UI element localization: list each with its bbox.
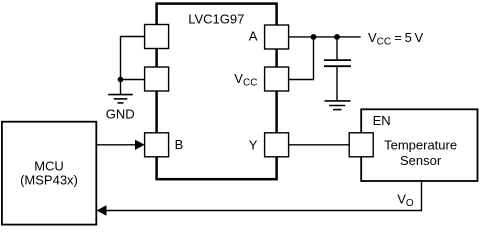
- pin box L2: [145, 67, 169, 91]
- svg-text:GND: GND: [106, 106, 135, 121]
- label Temperature Sensor: [384, 138, 457, 168]
- arrowhead into MCU: [97, 205, 107, 216]
- svg-text:VO: VO: [397, 191, 414, 209]
- junction dot supply 1: [311, 34, 317, 40]
- svg-text:(MSP43x): (MSP43x): [20, 173, 78, 188]
- wire pin A to VCC supply: [289, 36, 361, 38]
- svg-text:Temperature: Temperature: [384, 138, 457, 153]
- MCU box: [2, 122, 96, 225]
- ground GND symbol: [108, 95, 133, 103]
- wire capacitor to ground: [336, 67, 338, 101]
- wire sensor output VO: [106, 181, 422, 211]
- svg-text:A: A: [249, 29, 258, 44]
- junction dot left: [118, 77, 124, 83]
- wire VCC pin to supply rail: [289, 37, 314, 80]
- svg-text:Sensor: Sensor: [400, 153, 442, 168]
- svg-text:B: B: [175, 137, 184, 152]
- svg-text:VCC = 5 V: VCC = 5 V: [368, 30, 424, 48]
- svg-text:LVC1G97: LVC1G97: [188, 12, 244, 27]
- Temperature Sensor box: [361, 109, 477, 181]
- pin box L1: [145, 25, 169, 49]
- pin box B: [145, 133, 169, 157]
- pin box Y: [265, 133, 289, 157]
- wire pin Y to EN: [289, 144, 350, 146]
- pin box EN: [349, 133, 373, 157]
- pin box VCC: [265, 67, 289, 91]
- svg-text:EN: EN: [373, 113, 391, 128]
- wire junction to ground symbol: [120, 80, 122, 95]
- arrowhead into pin B: [135, 140, 145, 150]
- capacitor C1: [324, 60, 351, 66]
- junction dot supply 2: [334, 34, 340, 40]
- label MCU (MSP43x): [20, 159, 78, 188]
- wire NC pin2 to ground junction: [121, 79, 145, 81]
- svg-text:Y: Y: [249, 138, 258, 153]
- wire MCU to pin B: [96, 144, 136, 146]
- pin box A: [265, 25, 289, 49]
- wire supply to capacitor: [336, 37, 338, 59]
- svg-text:MCU: MCU: [34, 159, 64, 174]
- ground symbol at capacitor: [325, 101, 351, 110]
- IC U1 LVC1G97 body: [157, 4, 277, 180]
- wire NC pin1 to ground: [121, 37, 145, 80]
